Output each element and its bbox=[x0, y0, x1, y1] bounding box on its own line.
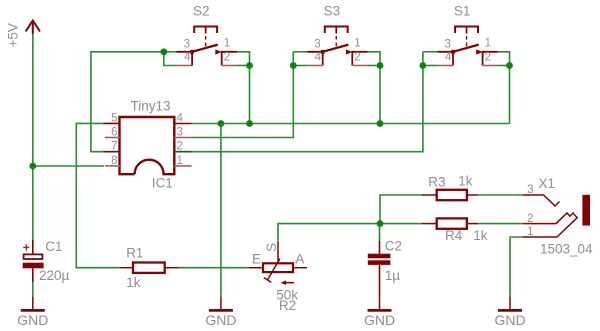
svg-text:X1: X1 bbox=[539, 176, 556, 191]
svg-text:3: 3 bbox=[177, 126, 183, 138]
svg-text:1µ: 1µ bbox=[385, 268, 401, 283]
svg-text:A: A bbox=[295, 252, 304, 267]
svg-text:1k: 1k bbox=[458, 174, 473, 189]
svg-text:1k: 1k bbox=[126, 275, 141, 290]
svg-text:8: 8 bbox=[111, 155, 117, 167]
svg-text:6: 6 bbox=[111, 126, 117, 138]
svg-text:R3: R3 bbox=[428, 175, 445, 190]
svg-text:1503_04: 1503_04 bbox=[540, 242, 593, 257]
svg-text:C1: C1 bbox=[45, 239, 62, 254]
svg-text:S2: S2 bbox=[193, 3, 210, 18]
svg-text:R4: R4 bbox=[445, 228, 463, 243]
svg-text:C2: C2 bbox=[385, 238, 402, 253]
svg-text:4: 4 bbox=[177, 112, 184, 124]
svg-text:220µ: 220µ bbox=[39, 268, 70, 283]
svg-text:2: 2 bbox=[527, 213, 533, 225]
svg-text:S: S bbox=[264, 243, 279, 252]
svg-text:3: 3 bbox=[527, 184, 533, 196]
svg-text:R1: R1 bbox=[126, 246, 143, 261]
svg-text:E: E bbox=[252, 252, 261, 267]
svg-text:GND: GND bbox=[494, 312, 525, 328]
svg-text:S3: S3 bbox=[324, 3, 341, 18]
svg-text:+5V: +5V bbox=[6, 23, 21, 47]
svg-text:GND: GND bbox=[205, 312, 236, 328]
svg-text:GND: GND bbox=[364, 312, 395, 328]
svg-text:IC1: IC1 bbox=[152, 176, 173, 191]
svg-text:1: 1 bbox=[224, 38, 230, 50]
svg-text:S1: S1 bbox=[454, 3, 471, 18]
svg-text:5: 5 bbox=[111, 112, 117, 124]
svg-text:4: 4 bbox=[184, 52, 191, 64]
svg-text:1: 1 bbox=[527, 226, 533, 238]
svg-text:Tiny13: Tiny13 bbox=[131, 98, 171, 113]
svg-text:3: 3 bbox=[184, 39, 190, 51]
svg-text:R2: R2 bbox=[279, 298, 296, 313]
svg-text:1k: 1k bbox=[473, 228, 488, 243]
svg-text:GND: GND bbox=[17, 312, 48, 328]
svg-text:1: 1 bbox=[177, 155, 183, 167]
svg-text:7: 7 bbox=[111, 141, 117, 153]
svg-text:2: 2 bbox=[177, 141, 183, 153]
svg-text:2: 2 bbox=[224, 52, 230, 64]
